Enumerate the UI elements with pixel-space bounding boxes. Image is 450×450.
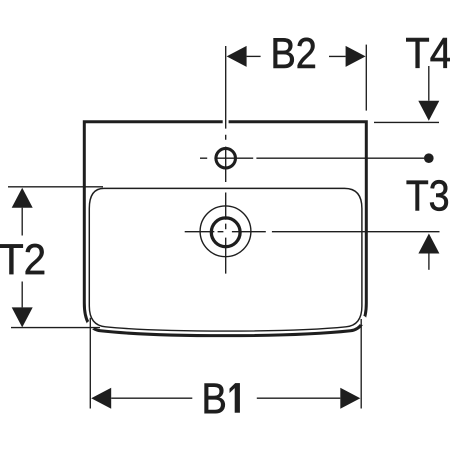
tap hole horizontal centerline to T4 dot [200,157,424,159]
drain horizontal centerline / T3 extension [185,231,440,233]
T3 dimension arrow [418,234,439,270]
T2 top extension line [8,186,103,188]
B1 dimension line [91,388,360,409]
T4 extension line [374,121,439,123]
label B1 [205,383,240,413]
label T4 [406,38,450,68]
white gap in outline at B1 right extension [358,316,367,325]
white gap in top edge at tap centerline [223,119,229,124]
T4 dimension arrow [418,66,439,121]
B2 dimension line [227,46,366,67]
label B2 [274,38,315,68]
B1 right extension line [360,319,362,409]
T4 measure dot on tap centerline [424,153,434,163]
white gap in outline at B1 left extension [86,321,95,330]
B1 left extension line [89,318,91,409]
washbasin outer outline [84,122,366,336]
tap hole [216,148,236,168]
washbasin inner bowl [89,188,362,331]
T2 bottom extension line [11,327,100,329]
tap hole vertical centerline / B2 extension [225,46,227,274]
drain inner circle [211,218,240,247]
label T3 [407,180,448,211]
label T2 [0,244,44,274]
B2 right extension line [365,45,367,111]
drain outer circle [200,206,251,257]
T2 dimension line [12,188,33,328]
